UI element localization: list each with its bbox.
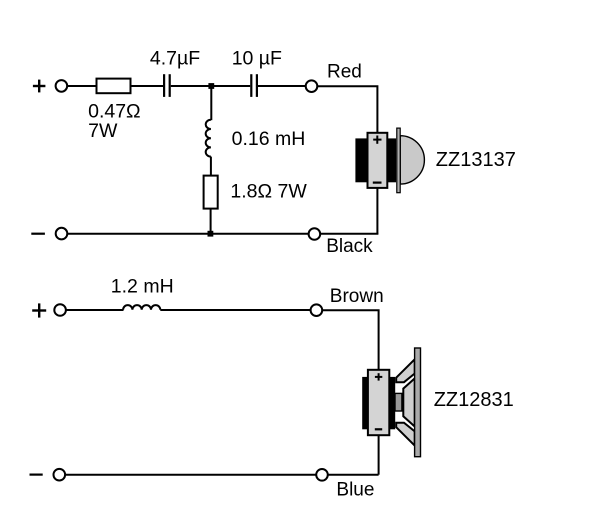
wire from Brown terminal to woofer plus (322, 310, 378, 369)
wire from C1 to node A (171, 85, 212, 87)
terminal circle (top circuit - input) (56, 228, 68, 240)
terminal circle (bottom circuit - input) (54, 469, 66, 481)
minus terminal symbol (top circuit -) (31, 233, 45, 235)
wire from tweeter minus down to bottom rail (376, 188, 378, 234)
resistor R2 1.8ohm 7W (204, 176, 218, 209)
tweeter minus pin marking (373, 182, 382, 184)
svg-text:Red: Red (327, 61, 362, 82)
svg-text:1.8Ω 7W: 1.8Ω 7W (230, 180, 307, 202)
terminal circle (top circuit + input) (56, 80, 68, 92)
svg-text:0.16 mH: 0.16 mH (232, 128, 306, 150)
tweeter ZZ13137 magnet black block (355, 138, 396, 182)
wire from Black terminal to tweeter bottom corner (320, 233, 378, 235)
svg-text:ZZ13137: ZZ13137 (436, 149, 516, 171)
node B junction on bottom rail (208, 231, 214, 237)
woofer ZZ12831 cone face (403, 378, 414, 426)
terminal circle Red (306, 80, 318, 92)
svg-text:4.7µF: 4.7µF (150, 48, 200, 70)
minus terminal symbol (bottom circuit -) (30, 474, 43, 476)
wire from L2 to Brown terminal (160, 309, 310, 311)
woofer ZZ12831 flange bar (415, 348, 421, 457)
svg-text:Brown: Brown (330, 286, 384, 307)
inductor L1 0.16 mH (206, 120, 211, 157)
tweeter ZZ13137 body rectangle (368, 133, 388, 188)
tweeter plus pin marking (373, 136, 381, 144)
wire from R1 to capacitor C1 (131, 85, 164, 87)
svg-text:ZZ12831: ZZ12831 (434, 389, 514, 411)
tweeter ZZ13137 dome (400, 136, 424, 184)
resistor R1 0.47ohm 7W (97, 79, 131, 94)
svg-text:1.2 mH: 1.2 mH (111, 276, 174, 298)
terminal circle Brown (311, 304, 323, 316)
woofer ZZ12831 pole piece (395, 393, 402, 411)
plus terminal symbol (top circuit +) (33, 80, 46, 93)
woofer ZZ12831 magnet black block (362, 377, 395, 429)
svg-text:7W: 7W (88, 120, 118, 142)
woofer minus pin marking (375, 428, 382, 430)
terminal circle Blue (316, 469, 328, 481)
woofer ZZ12831 body rectangle (368, 370, 389, 435)
wire from R2 to node B (210, 209, 212, 234)
wire from C2 to Red terminal (258, 85, 306, 87)
node A junction (208, 83, 214, 89)
svg-text:Blue: Blue (336, 480, 374, 501)
plus terminal symbol (bottom circuit +) (32, 303, 46, 317)
wire from + terminal to inductor L2 (66, 309, 123, 311)
wire from Red terminal to tweeter plus (318, 86, 378, 133)
terminal circle (bottom circuit + input) (54, 304, 66, 316)
wire from Blue terminal to woofer bottom corner (328, 474, 379, 476)
wire from node A down to inductor L1 (210, 86, 212, 120)
svg-text:10 µF: 10 µF (232, 48, 282, 70)
woofer ZZ12831 surround lower band (396, 423, 415, 446)
bottom rail wire from - terminal to Black terminal (68, 233, 309, 235)
svg-text:Black: Black (326, 236, 373, 257)
wire from node A to capacitor C2 (211, 85, 250, 87)
capacitor C1 4.7uF (164, 74, 170, 97)
wire from + terminal to resistor R1 (67, 85, 96, 87)
capacitor C2 10uF (251, 74, 257, 97)
inductor L2 1.2 mH (123, 305, 160, 310)
woofer ZZ12831 surround upper band (396, 359, 415, 382)
terminal circle Black (309, 228, 321, 240)
woofer plus pin marking (375, 373, 382, 380)
wire from woofer minus down to bottom rail (378, 435, 380, 475)
bottom rail wire from - terminal to Blue terminal (65, 474, 316, 476)
tweeter ZZ13137 faceplate bar (397, 128, 400, 193)
wire from L1 to resistor R2 (210, 157, 212, 176)
